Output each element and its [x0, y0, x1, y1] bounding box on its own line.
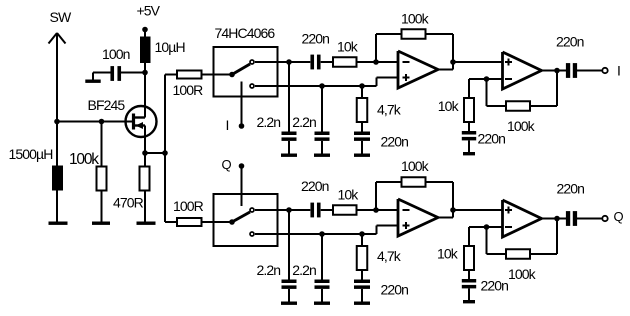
svg-text:100k: 100k — [401, 158, 430, 174]
svg-text:1500µH: 1500µH — [9, 146, 53, 162]
svg-text:2.2n: 2.2n — [257, 262, 281, 278]
svg-text:I: I — [226, 117, 230, 133]
svg-text:100R: 100R — [173, 198, 204, 214]
svg-text:10k: 10k — [338, 187, 360, 203]
svg-text:220n: 220n — [301, 178, 329, 194]
svg-text:SW: SW — [50, 9, 72, 25]
svg-text:10µH: 10µH — [155, 39, 185, 55]
svg-text:220n: 220n — [381, 133, 409, 149]
svg-text:2.2n: 2.2n — [292, 114, 316, 130]
svg-text:10k: 10k — [337, 38, 359, 54]
svg-text:I: I — [617, 63, 621, 79]
svg-text:BF245: BF245 — [88, 97, 126, 113]
svg-text:100k: 100k — [508, 266, 537, 282]
svg-text:Q: Q — [222, 157, 232, 172]
svg-text:220n: 220n — [557, 180, 585, 196]
svg-text:2.2n: 2.2n — [292, 262, 316, 278]
svg-text:100k: 100k — [69, 151, 99, 168]
svg-text:100k: 100k — [401, 11, 430, 27]
svg-text:2.2n: 2.2n — [257, 114, 281, 130]
svg-text:100n: 100n — [102, 46, 130, 62]
svg-text:220n: 220n — [381, 282, 409, 298]
svg-text:10k: 10k — [437, 246, 459, 262]
svg-text:10k: 10k — [438, 98, 460, 114]
svg-text:220n: 220n — [302, 30, 330, 46]
svg-text:Q: Q — [614, 209, 624, 224]
svg-text:220n: 220n — [481, 278, 509, 294]
svg-text:470R: 470R — [113, 195, 144, 211]
svg-text:+5V: +5V — [137, 3, 161, 19]
svg-text:74HC4066: 74HC4066 — [215, 25, 276, 41]
svg-text:220n: 220n — [556, 34, 584, 50]
svg-text:4,7k: 4,7k — [377, 248, 402, 264]
svg-text:100k: 100k — [507, 118, 536, 134]
svg-text:4,7k: 4,7k — [377, 102, 402, 118]
svg-text:100R: 100R — [173, 82, 204, 98]
svg-text:220n: 220n — [478, 130, 506, 146]
